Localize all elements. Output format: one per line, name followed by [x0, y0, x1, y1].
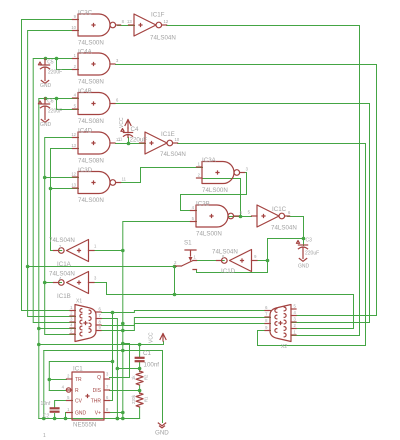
svg-text:IC3C: IC3C	[78, 10, 93, 17]
svg-text:R2: R2	[144, 374, 149, 380]
svg-text:13: 13	[71, 143, 76, 148]
svg-text:74LS00N: 74LS00N	[78, 197, 104, 204]
svg-text:11: 11	[118, 137, 123, 142]
svg-text:74LS04N: 74LS04N	[49, 271, 75, 278]
svg-text:74LS04N: 74LS04N	[160, 151, 186, 158]
svg-text:12: 12	[71, 172, 76, 177]
svg-text:13: 13	[127, 19, 132, 24]
svg-text:13: 13	[71, 183, 76, 188]
svg-text:IC1E: IC1E	[161, 131, 175, 138]
svg-text:10: 10	[175, 137, 180, 142]
svg-text:12: 12	[71, 132, 76, 137]
svg-text:R: R	[75, 388, 79, 394]
svg-text:C1: C1	[143, 350, 151, 357]
svg-text:74LS04N: 74LS04N	[271, 225, 297, 232]
svg-text:220uF: 220uF	[130, 137, 148, 144]
svg-text:IC4D: IC4D	[78, 128, 93, 135]
svg-text:THR: THR	[91, 399, 102, 405]
svg-text:GND: GND	[75, 411, 87, 417]
svg-text:C2: C2	[43, 414, 50, 420]
svg-text:C3: C3	[306, 238, 313, 244]
svg-text:10nf: 10nf	[41, 401, 51, 407]
svg-text:R1: R1	[144, 396, 149, 402]
svg-text:IC3B: IC3B	[196, 201, 210, 208]
svg-text:74LS00N: 74LS00N	[78, 40, 104, 47]
svg-text:74LS08N: 74LS08N	[78, 79, 104, 86]
svg-text:GND: GND	[155, 430, 169, 437]
svg-text:X1: X1	[76, 299, 82, 305]
svg-text:Q: Q	[97, 375, 101, 381]
svg-text:GND: GND	[298, 264, 310, 270]
svg-text:TR: TR	[75, 377, 82, 383]
svg-text:100nf: 100nf	[144, 362, 160, 369]
svg-text:11: 11	[122, 177, 127, 182]
svg-text:IC1D: IC1D	[221, 268, 236, 275]
svg-text:2200F: 2200F	[48, 70, 62, 76]
svg-text:IC3A: IC3A	[202, 157, 217, 164]
svg-text:X2: X2	[281, 344, 287, 350]
svg-text:IC1A: IC1A	[57, 261, 72, 268]
svg-text:IC1: IC1	[73, 366, 83, 373]
svg-text:74LS04N: 74LS04N	[150, 35, 176, 42]
svg-text:VCC: VCC	[149, 332, 155, 343]
svg-text:220uF: 220uF	[305, 251, 319, 257]
svg-text:12: 12	[164, 19, 169, 24]
svg-text:IC3D: IC3D	[78, 167, 93, 174]
svg-text:CV: CV	[75, 399, 83, 405]
svg-text:IC1C: IC1C	[272, 206, 287, 213]
svg-text:VCC: VCC	[119, 117, 125, 128]
svg-text:C6: C6	[47, 99, 54, 105]
svg-text:NE555N: NE555N	[73, 422, 96, 429]
svg-text:IC1F: IC1F	[151, 12, 165, 19]
svg-text:IC4A: IC4A	[78, 49, 93, 56]
svg-text:DIS: DIS	[93, 388, 102, 394]
svg-text:C5: C5	[47, 60, 54, 66]
svg-text:74LS00N: 74LS00N	[196, 231, 222, 238]
svg-text:IC1B: IC1B	[57, 293, 71, 300]
svg-text:74LS08N: 74LS08N	[78, 118, 104, 125]
svg-text:74LS08N: 74LS08N	[78, 158, 104, 165]
svg-text:2200F: 2200F	[48, 109, 62, 115]
svg-text:V+: V+	[95, 411, 101, 417]
svg-text:C4: C4	[131, 126, 139, 133]
svg-text:10: 10	[71, 25, 76, 30]
svg-text:1: 1	[43, 433, 46, 439]
svg-text:S1: S1	[184, 240, 192, 247]
svg-text:IC4B: IC4B	[78, 88, 92, 95]
svg-text:GND: GND	[40, 83, 52, 89]
svg-text:74LS00N: 74LS00N	[202, 187, 228, 194]
svg-text:74LS04N: 74LS04N	[49, 237, 75, 244]
svg-text:GND: GND	[40, 122, 52, 128]
svg-text:74LS04N: 74LS04N	[212, 249, 238, 256]
svg-text:220k: 220k	[131, 394, 136, 404]
